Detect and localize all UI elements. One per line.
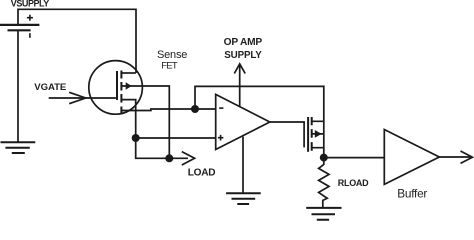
svg-text:LOAD: LOAD (188, 167, 215, 178)
svg-text:RLOAD: RLOAD (338, 178, 369, 188)
svg-text:SUPPLY: SUPPLY (224, 50, 262, 61)
svg-text:VGATE: VGATE (34, 82, 67, 93)
svg-text:Buffer: Buffer (397, 187, 427, 201)
svg-text:FET: FET (161, 60, 178, 71)
svg-text:Sense: Sense (157, 49, 187, 61)
svg-text:VSUPPLY: VSUPPLY (11, 0, 49, 8)
svg-text:OP AMP: OP AMP (224, 37, 263, 48)
